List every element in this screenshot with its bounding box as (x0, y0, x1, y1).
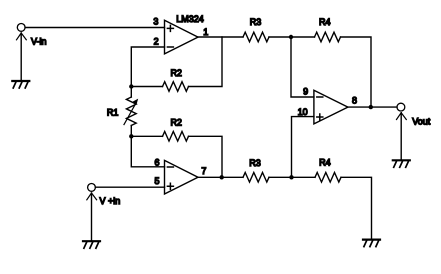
node B junction dot (129, 134, 133, 138)
terminal V+in (87, 184, 97, 241)
svg-text:R2: R2 (170, 68, 182, 78)
wire node B to R2 bottom (131, 135, 162, 137)
wire R2 top feedback branch (189, 37, 223, 87)
junction dot op2 output (220, 175, 224, 179)
wire V+in to pin5 (95, 186, 164, 188)
svg-text:5: 5 (154, 176, 159, 186)
wire pin2 to node A (131, 47, 164, 87)
wire R3 to junction (269, 36, 315, 38)
svg-text:3: 3 (153, 17, 158, 27)
svg-text:7: 7 (201, 166, 206, 176)
svg-text:9: 9 (303, 87, 308, 97)
svg-text:1: 1 (203, 27, 208, 37)
svg-text:2: 2 (154, 36, 159, 46)
wire junction to pin 10 (292, 117, 314, 178)
resistor R3 (bottom) (243, 173, 269, 183)
op-amp U1a (LM324 section 1) (165, 20, 199, 54)
op-amp U1b (LM324 section 2) (165, 160, 199, 194)
junction dot bottom (pin 10 node) (289, 175, 293, 179)
wire R4 bottom to ground (341, 177, 372, 239)
svg-text:R2: R2 (170, 117, 182, 127)
svg-text:R4: R4 (319, 17, 331, 27)
svg-text:Vout: Vout (412, 116, 431, 126)
junction dot top (pin 9 node) (289, 35, 293, 39)
wire junction to pin 9 (291, 37, 314, 97)
ground (Vout) (393, 160, 410, 167)
svg-text:LM324: LM324 (176, 14, 204, 24)
node A junction dot (129, 84, 133, 88)
wire R4 to output node (341, 37, 372, 107)
potentiometer R1 (124, 87, 138, 137)
resistor R2 (top) (163, 82, 189, 92)
svg-text:10: 10 (298, 107, 308, 117)
wire node A to R2 top (131, 86, 162, 88)
wire op1 output to R3 (198, 36, 243, 38)
svg-text:R4: R4 (319, 158, 331, 168)
op-amp U1c (LM324 section 3) (314, 90, 348, 124)
ground (V-in) (12, 81, 29, 88)
wire op3 output to Vout (348, 106, 397, 108)
wire op2 output to R3 bottom (198, 176, 243, 178)
wire R3 bottom to junction (269, 176, 315, 178)
svg-text:R3: R3 (250, 17, 262, 27)
wire R2 bottom to op2 output (189, 136, 223, 177)
ground (R4 bottom) (363, 240, 380, 247)
ground (V+in) (83, 241, 100, 248)
junction dot output node (369, 105, 373, 109)
resistor R3 (top) (243, 32, 269, 42)
svg-text:V +in: V +in (100, 196, 121, 206)
terminal V-in (17, 24, 27, 81)
wire V-in to pin3 (25, 27, 164, 29)
resistor R4 (top) (315, 32, 341, 42)
wire node B to pin 6 (131, 136, 164, 167)
resistor R4 (bottom) (315, 173, 341, 183)
resistor R2 (bottom) (163, 132, 189, 142)
svg-text:V-in: V-in (31, 36, 47, 46)
svg-text:R3: R3 (249, 158, 261, 168)
svg-text:R1: R1 (107, 107, 119, 117)
terminal Vout (397, 103, 407, 159)
svg-text:8: 8 (352, 95, 357, 105)
svg-text:6: 6 (154, 157, 159, 167)
